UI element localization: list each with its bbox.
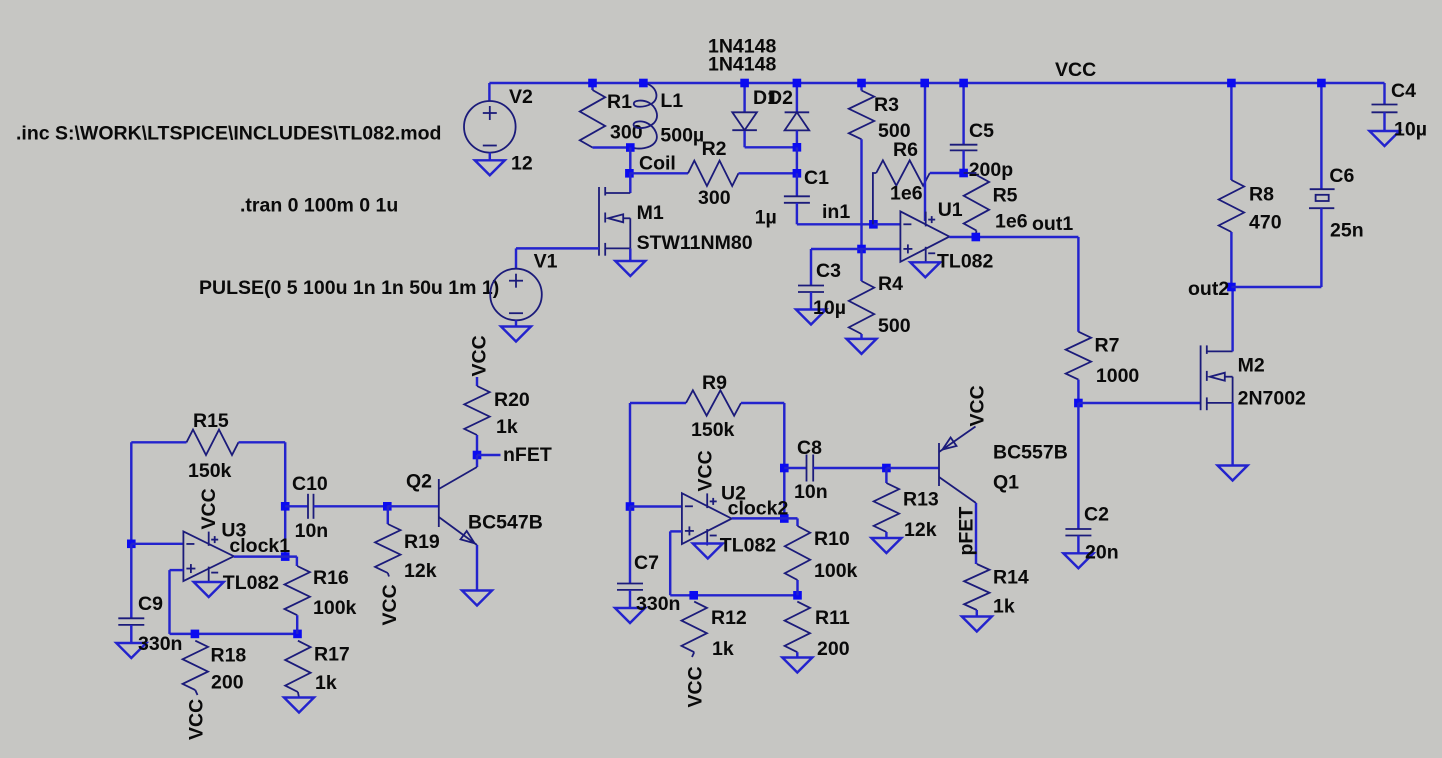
svg-text:pFET: pFET — [956, 507, 978, 556]
svg-text:R17: R17 — [314, 644, 350, 666]
svg-text:V2: V2 — [509, 86, 533, 108]
junction — [959, 169, 968, 178]
junction — [857, 79, 866, 88]
resistor R10 — [785, 526, 810, 580]
wire — [813, 467, 886, 469]
junction — [1227, 79, 1236, 88]
svg-text:1k: 1k — [496, 416, 518, 438]
diode D1 1N4148 — [732, 112, 757, 130]
svg-text:R6: R6 — [893, 139, 918, 161]
svg-text:PULSE(0 5 100u 1n 1n 50u 1m 1): PULSE(0 5 100u 1n 1n 50u 1m 1) — [199, 277, 499, 299]
wire — [732, 517, 798, 519]
svg-text:1k: 1k — [993, 596, 1015, 618]
ground — [284, 698, 314, 713]
svg-text:.inc S:\WORK\LTSPICE\INCLUDES\: .inc S:\WORK\LTSPICE\INCLUDES\TL082.mod — [16, 123, 441, 145]
wire — [886, 467, 939, 469]
resistor R3 — [849, 91, 874, 140]
junction — [972, 233, 981, 242]
svg-text:R14: R14 — [993, 567, 1029, 589]
svg-text:D2: D2 — [768, 87, 793, 109]
svg-text:500: 500 — [878, 315, 911, 337]
ground — [116, 643, 146, 658]
svg-text:BC557B: BC557B — [993, 442, 1068, 464]
resistor R5 — [964, 172, 977, 174]
wire — [1078, 402, 1200, 404]
svg-text:1000: 1000 — [1096, 365, 1140, 387]
junction — [793, 79, 802, 88]
wire — [170, 633, 297, 635]
wire — [629, 590, 631, 608]
transistor Q2 BC547B — [438, 479, 440, 527]
svg-text:R19: R19 — [404, 531, 440, 553]
wire — [476, 455, 478, 467]
wire — [131, 543, 183, 545]
svg-text:VCC: VCC — [695, 450, 717, 491]
wire — [515, 248, 517, 268]
ground — [475, 160, 505, 175]
R12 lead — [692, 652, 694, 657]
svg-text:12k: 12k — [404, 560, 437, 582]
svg-text:VCC: VCC — [198, 488, 220, 529]
svg-text:10µ: 10µ — [1394, 119, 1427, 141]
wire — [743, 83, 745, 112]
junction — [793, 143, 802, 152]
ground — [871, 538, 901, 553]
wire — [670, 530, 682, 532]
svg-text:out2: out2 — [1188, 278, 1229, 300]
svg-text:L1: L1 — [660, 90, 683, 112]
diode D2 1N4148 — [785, 111, 810, 113]
wire — [873, 223, 900, 225]
wire — [170, 569, 184, 571]
junction — [383, 502, 392, 511]
capacitor C4 — [1372, 104, 1398, 106]
wire — [796, 518, 798, 526]
svg-text:VCC: VCC — [469, 335, 491, 376]
svg-text:Q2: Q2 — [406, 471, 432, 493]
resistor R14 — [964, 564, 989, 610]
junction — [639, 79, 648, 88]
ground — [782, 658, 812, 673]
ground — [796, 310, 826, 325]
wire — [860, 334, 862, 339]
svg-text:10µ: 10µ — [813, 297, 846, 319]
resistor R1 — [580, 90, 605, 148]
wire — [629, 173, 631, 193]
wire — [591, 83, 593, 90]
svg-text:VCC: VCC — [186, 699, 208, 740]
svg-text:R11: R11 — [815, 607, 850, 629]
svg-text:VCC: VCC — [379, 584, 401, 625]
junction — [281, 502, 290, 511]
svg-text:C8: C8 — [797, 437, 822, 459]
capacitor C7 — [617, 583, 643, 585]
svg-text:C6: C6 — [1329, 165, 1354, 187]
svg-text:1k: 1k — [315, 672, 337, 694]
ground — [615, 608, 645, 623]
svg-text:TL082: TL082 — [937, 251, 994, 273]
resistor R12 — [682, 602, 707, 653]
op-amp U2 TL082 — [682, 493, 732, 544]
wire — [810, 249, 812, 286]
capacitor C9 — [118, 617, 144, 619]
wire — [796, 173, 798, 196]
svg-text:BC547B: BC547B — [468, 512, 543, 534]
wire — [860, 249, 862, 281]
svg-text:R1: R1 — [607, 91, 632, 113]
resistor R18 — [183, 641, 208, 690]
resistor R8 — [1219, 180, 1244, 232]
svg-text:100k: 100k — [814, 560, 858, 582]
wire — [1077, 237, 1079, 332]
svg-text:20n: 20n — [1085, 542, 1119, 564]
wire — [930, 172, 964, 174]
junction — [793, 591, 802, 600]
svg-text:Coil: Coil — [639, 153, 676, 175]
svg-text:C7: C7 — [634, 552, 659, 574]
wire — [234, 555, 297, 557]
resistor R4 — [849, 281, 874, 334]
wire — [1231, 403, 1233, 466]
wire — [783, 403, 785, 519]
wire — [860, 83, 862, 91]
wire — [629, 248, 631, 261]
ground — [847, 339, 877, 354]
ground — [910, 262, 940, 277]
wire — [387, 506, 389, 524]
svg-text:R10: R10 — [814, 528, 850, 550]
wire — [1230, 83, 1232, 180]
capacitor C10 — [307, 494, 309, 519]
junction — [869, 220, 878, 229]
junction — [780, 464, 789, 473]
wire — [811, 248, 900, 250]
svg-text:12k: 12k — [904, 519, 937, 541]
svg-text:C1: C1 — [804, 167, 829, 189]
svg-text:25n: 25n — [1330, 220, 1364, 242]
svg-text:200p: 200p — [969, 159, 1014, 181]
junction — [127, 540, 136, 549]
junction — [793, 169, 802, 178]
svg-text:150k: 150k — [691, 419, 735, 441]
svg-text:C3: C3 — [816, 260, 841, 282]
wire — [1320, 208, 1322, 287]
capacitor C6 — [1310, 188, 1335, 190]
op-amp U1 TL082 — [900, 211, 949, 261]
svg-text:in1: in1 — [822, 201, 850, 223]
svg-text:200: 200 — [817, 638, 850, 660]
svg-text:U1: U1 — [938, 199, 963, 221]
resistor R11 — [785, 602, 810, 653]
junction — [689, 591, 698, 600]
svg-text:1e6: 1e6 — [890, 183, 923, 205]
transistor M1 STW11NM80 — [598, 187, 600, 256]
ground — [615, 261, 645, 276]
resistor R15 — [187, 430, 239, 455]
svg-text:VCC: VCC — [685, 666, 707, 707]
svg-text:R4: R4 — [878, 273, 903, 295]
svg-text:R3: R3 — [874, 94, 899, 116]
junction — [857, 245, 866, 254]
svg-text:STW11NM80: STW11NM80 — [637, 232, 753, 254]
wire — [285, 505, 308, 507]
resistor R16 — [285, 566, 310, 615]
svg-text:100k: 100k — [313, 597, 357, 619]
svg-text:R2: R2 — [702, 138, 727, 160]
wire — [976, 610, 978, 617]
wire — [476, 435, 478, 455]
wire — [739, 172, 797, 174]
junction — [780, 514, 789, 523]
wire — [296, 615, 298, 634]
wire — [1077, 403, 1079, 529]
R18 lead — [195, 690, 197, 695]
junction — [191, 630, 200, 639]
R19 lead — [388, 573, 389, 577]
resistor R2 — [688, 161, 739, 186]
wire — [629, 403, 631, 507]
wire — [745, 146, 797, 148]
wire — [743, 131, 745, 147]
resistor R19 — [375, 524, 400, 573]
wire — [630, 505, 682, 507]
wire — [593, 146, 631, 148]
R17 lead — [298, 692, 299, 698]
svg-text:10n: 10n — [295, 520, 329, 542]
resistor R7 — [1066, 332, 1091, 380]
junction — [920, 79, 929, 88]
junction — [1227, 283, 1236, 292]
svg-text:500µ: 500µ — [660, 125, 704, 147]
wire — [796, 83, 798, 112]
resistor R9 — [686, 390, 741, 415]
svg-text:.tran 0 100m 0 1u: .tran 0 100m 0 1u — [240, 195, 398, 217]
svg-text:C5: C5 — [969, 120, 994, 142]
svg-text:200: 200 — [211, 671, 244, 693]
wire — [516, 247, 599, 249]
wire — [207, 580, 209, 583]
wire — [860, 139, 862, 249]
svg-text:1N4148: 1N4148 — [708, 54, 776, 76]
wire — [296, 557, 298, 566]
wire — [796, 580, 798, 595]
junction — [959, 79, 968, 88]
wire — [949, 236, 1078, 238]
wire — [796, 652, 798, 657]
junction — [1317, 79, 1326, 88]
capacitor C8 — [806, 455, 808, 482]
svg-text:VCC: VCC — [967, 385, 989, 426]
resistor R17 — [285, 641, 310, 692]
junction — [882, 464, 891, 473]
wire — [885, 532, 887, 538]
wire — [387, 505, 439, 507]
svg-text:R8: R8 — [1249, 184, 1274, 206]
svg-text:V1: V1 — [534, 251, 558, 273]
wire — [629, 507, 631, 584]
ground — [1218, 466, 1248, 481]
wire — [284, 442, 286, 556]
svg-text:2N7002: 2N7002 — [1238, 388, 1306, 410]
wire — [131, 441, 186, 443]
wire — [239, 441, 286, 443]
junction — [473, 451, 482, 460]
svg-text:clock1: clock1 — [229, 535, 290, 557]
capacitor C1 — [784, 195, 810, 197]
svg-text:TL082: TL082 — [223, 572, 280, 594]
wire — [476, 377, 478, 386]
transistor Q1 BC557B — [938, 443, 940, 486]
svg-text:nFET: nFET — [503, 444, 552, 466]
ground — [962, 617, 992, 632]
capacitor C3 — [798, 285, 824, 287]
wire — [314, 505, 388, 507]
op-amp U3 TL082 — [183, 531, 233, 581]
svg-text:R13: R13 — [903, 489, 939, 511]
wire — [1320, 83, 1322, 189]
svg-text:10n: 10n — [794, 481, 828, 503]
ground — [1370, 131, 1400, 146]
capacitor C5 — [950, 144, 978, 146]
wire — [810, 292, 812, 310]
wire — [1383, 112, 1385, 131]
wire — [168, 570, 170, 634]
inductor L1 — [632, 83, 657, 149]
R6 lead — [873, 173, 876, 224]
wire VCC rail — [489, 82, 1384, 84]
wire — [670, 594, 797, 596]
svg-text:R5: R5 — [993, 185, 1018, 207]
voltage source V1 — [490, 269, 542, 321]
wire — [488, 83, 490, 101]
wire — [489, 153, 491, 161]
wire — [1230, 232, 1232, 287]
ground — [693, 544, 723, 559]
junction — [625, 169, 634, 178]
svg-text:300: 300 — [698, 187, 731, 209]
wire — [975, 503, 977, 564]
wire — [630, 402, 686, 404]
svg-text:R16: R16 — [313, 567, 349, 589]
wire — [796, 130, 798, 147]
svg-text:C4: C4 — [1391, 80, 1416, 102]
wire — [885, 468, 887, 483]
wire — [1077, 380, 1079, 403]
svg-text:VCC: VCC — [1055, 59, 1096, 81]
wire — [1077, 536, 1079, 554]
svg-text:12: 12 — [511, 153, 533, 175]
svg-text:TL082: TL082 — [720, 535, 777, 557]
resistor R13 — [874, 483, 899, 532]
svg-text:Q1: Q1 — [993, 472, 1019, 494]
wire — [669, 531, 671, 595]
wire — [924, 83, 926, 221]
wire — [797, 223, 874, 225]
svg-text:R9: R9 — [702, 372, 727, 394]
svg-text:1µ: 1µ — [755, 207, 777, 229]
wire — [629, 172, 688, 174]
voltage source V2 — [464, 101, 516, 153]
wire — [796, 147, 798, 173]
wire — [784, 467, 806, 469]
svg-text:R12: R12 — [711, 607, 747, 629]
wire — [130, 625, 132, 643]
wire — [1231, 287, 1233, 351]
svg-text:M1: M1 — [637, 202, 664, 224]
wire — [1231, 286, 1321, 288]
svg-text:C9: C9 — [138, 593, 163, 615]
svg-text:R18: R18 — [211, 645, 247, 667]
svg-text:R7: R7 — [1095, 335, 1120, 357]
svg-text:C10: C10 — [292, 473, 328, 495]
svg-text:330n: 330n — [138, 633, 182, 655]
wire — [476, 545, 478, 591]
transistor M2 2N7002 — [1200, 345, 1202, 410]
capacitor C2 — [1065, 528, 1091, 530]
junction — [281, 552, 290, 561]
junction — [626, 143, 635, 152]
svg-text:M2: M2 — [1238, 355, 1265, 377]
wire — [629, 148, 631, 174]
svg-text:R20: R20 — [494, 389, 530, 411]
wire — [796, 203, 798, 225]
svg-text:C2: C2 — [1084, 504, 1109, 526]
wire — [962, 83, 964, 145]
junction — [293, 630, 302, 639]
svg-text:out1: out1 — [1032, 213, 1073, 235]
svg-text:300: 300 — [610, 122, 643, 144]
ground — [194, 582, 224, 597]
wire — [477, 454, 501, 456]
wire — [741, 402, 784, 404]
wire — [515, 320, 517, 326]
junction — [1074, 399, 1083, 408]
svg-text:R15: R15 — [193, 410, 229, 432]
resistor R6 — [876, 160, 930, 185]
wire — [1383, 83, 1385, 105]
svg-text:470: 470 — [1249, 212, 1282, 234]
wire — [924, 261, 926, 264]
junction — [740, 79, 749, 88]
resistor R20 — [464, 386, 489, 435]
ground — [1063, 553, 1093, 568]
wire — [962, 150, 964, 173]
svg-text:1e6: 1e6 — [995, 211, 1028, 233]
svg-text:1k: 1k — [712, 638, 734, 660]
ground — [462, 591, 492, 606]
svg-text:clock2: clock2 — [728, 498, 789, 520]
junction — [588, 79, 597, 88]
wire — [130, 442, 132, 544]
svg-text:150k: 150k — [188, 460, 232, 482]
junction — [626, 502, 635, 511]
wire — [130, 544, 132, 619]
ground — [501, 327, 531, 342]
